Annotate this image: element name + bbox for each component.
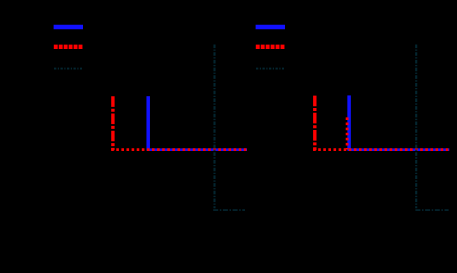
panel 2 legend: red dashed entry (256, 45, 285, 49)
panel 2 teal curve: horizontal tail (dash-dot) (415, 209, 448, 211)
panel 2 red curve: vertical spike (dash-dot) (313, 96, 316, 151)
panel 1 legend: blue solid entry (54, 25, 83, 30)
panel 1 red curve: horizontal dashed tail (111, 148, 247, 151)
panel 2 legend: teal dash-dot entry (256, 68, 284, 70)
panel 2 teal curve: vertical spike (dash-dot) (415, 45, 417, 209)
panel 2 blue curve: horizontal tail (348, 148, 450, 151)
panel 1 blue curve: horizontal tail (147, 148, 247, 151)
panel 2 red curve: horizontal dashed tail (313, 148, 449, 151)
panel 1 teal curve: horizontal tail (dash-dot) (213, 209, 245, 211)
panel 1 red curve: vertical spike (dash-dot) (111, 96, 114, 150)
panel 1 teal curve: vertical spike (dash-dot) (213, 45, 215, 209)
panel 1 blue curve: vertical spike (146, 96, 150, 150)
panel 2 blue curve: vertical spike (347, 95, 351, 150)
panel 1 legend: red dashed entry (54, 45, 83, 49)
panel 2 red curve: secondary small spike (dashed, on blue spike) (346, 117, 349, 149)
panel 2 legend: blue solid entry (256, 25, 285, 30)
panel 1 legend: teal dash-dot entry (54, 68, 82, 70)
